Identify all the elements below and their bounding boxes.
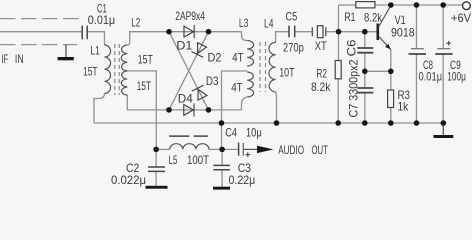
svg-text:XT: XT xyxy=(315,39,328,53)
junction audio node B (L5 right / C3 / C4) xyxy=(219,147,225,153)
wire coax shield dashed bottom xyxy=(0,44,77,46)
wire L4 top lead to C5 xyxy=(276,32,289,43)
wire supply rail R1 right to +6V terminal xyxy=(375,4,463,6)
junction ring node B top-right xyxy=(206,29,212,35)
wire R2 bottom to ground rail xyxy=(337,79,339,123)
inductor L3 lower winding 4T xyxy=(247,72,253,97)
wire C2 bottom to its ground xyxy=(155,172,157,186)
svg-text:15T: 15T xyxy=(83,65,98,79)
wire L3 bottom lead xyxy=(242,97,248,110)
inductor L2 upper winding 15T xyxy=(121,45,127,71)
capacitor C8 0.01u xyxy=(409,49,426,54)
C9 plus polarity mark xyxy=(446,41,451,46)
resistor R3 1k xyxy=(388,90,394,108)
wire node A to L5 left xyxy=(156,148,169,150)
wire supply rail R1 left lead xyxy=(339,4,356,6)
capacitor C2 0.022u xyxy=(148,167,165,171)
svg-text:2AP9x4: 2AP9x4 xyxy=(175,9,205,23)
svg-text:0.22μ: 0.22μ xyxy=(229,173,256,187)
wire C5 to XT xyxy=(295,31,313,33)
diode D1 xyxy=(184,25,194,38)
ground main rail right xyxy=(434,135,454,138)
inductor L1 winding 15T xyxy=(105,45,111,94)
transistor V1 emitter lead with arrow xyxy=(379,37,391,50)
svg-text:15T: 15T xyxy=(138,52,153,66)
svg-text:L2: L2 xyxy=(131,16,140,30)
svg-text:D3: D3 xyxy=(206,74,219,88)
junction ring node D bottom-right xyxy=(206,107,212,113)
wire coax shield dashed top xyxy=(0,18,79,20)
diode D4 xyxy=(184,103,194,116)
inductor L5 core dashes xyxy=(169,135,208,137)
svg-text:D2: D2 xyxy=(208,51,222,65)
capacitor C5 270p xyxy=(289,26,295,38)
wire node X to base node to V1 base xyxy=(339,31,378,33)
svg-text:C5: C5 xyxy=(286,9,298,23)
junction ring node A top-left xyxy=(166,29,172,35)
capacitor C6 3300p xyxy=(357,48,373,53)
svg-text:100μ: 100μ xyxy=(447,69,466,83)
svg-text:R2: R2 xyxy=(316,66,327,80)
junction C9 bottom at ground rail xyxy=(441,120,447,126)
svg-text:D1: D1 xyxy=(176,38,192,52)
wire ring diagonal node B-top to node C-bottom xyxy=(169,32,209,110)
capacitor C7 3300p xyxy=(357,88,373,93)
wire C8 bottom to ground rail xyxy=(416,55,418,124)
svg-text:L3: L3 xyxy=(239,16,249,30)
svg-text:4T: 4T xyxy=(232,51,244,65)
svg-text:+6V: +6V xyxy=(451,11,471,25)
diode D2 xyxy=(191,43,206,58)
junction C7 bottom at ground rail xyxy=(362,120,368,126)
wire emitter down to R3 top xyxy=(390,50,392,91)
wire C1 to L1 top xyxy=(87,32,104,45)
svg-text:9018: 9018 xyxy=(391,26,415,40)
wire L3 center tap down to audio node B xyxy=(222,71,248,149)
capacitor C9 100u electrolytic xyxy=(435,49,452,54)
junction emitter / C6-C7 node xyxy=(362,69,368,75)
junction audio node A (L5 left / C2) xyxy=(153,147,159,153)
transformer T2 core (L3/L4) xyxy=(260,42,266,92)
svg-text:C4: C4 xyxy=(225,126,237,140)
junction base node (C6 top) xyxy=(362,29,368,35)
ground C3 xyxy=(213,187,230,190)
inductor L2 lower winding 15T xyxy=(121,71,127,95)
svg-text:10μ: 10μ xyxy=(246,126,262,140)
svg-text:8.2k: 8.2k xyxy=(311,80,331,94)
terminal +6V xyxy=(463,2,471,10)
capacitor C1 0.01u xyxy=(82,26,87,40)
svg-text:L5: L5 xyxy=(169,153,178,167)
junction L3 tap at ground rail xyxy=(219,120,225,126)
svg-text:IF: IF xyxy=(1,52,8,66)
svg-text:100T: 100T xyxy=(187,153,210,167)
wire R3 bottom to ground rail xyxy=(390,108,392,124)
wire ring diagonal node A-top to node D-bottom xyxy=(169,32,209,110)
wire C3 bottom to its ground xyxy=(221,170,223,186)
audio out arrow xyxy=(243,146,273,153)
svg-text:8.2k: 8.2k xyxy=(364,11,383,25)
wire C6 bottom to emitter junction to C7 top xyxy=(364,54,366,88)
wire L4 bottom lead to ground rail xyxy=(275,92,278,123)
junction collector at supply rail xyxy=(388,2,394,8)
svg-text:4T: 4T xyxy=(231,81,243,95)
junction C8 top at supply rail xyxy=(414,2,420,8)
wire C7 bottom to ground rail xyxy=(364,94,366,124)
inductor L5 winding 100T xyxy=(170,144,209,150)
wire coax shield ground stub xyxy=(65,45,67,57)
wire L2 top lead and ring top rail xyxy=(127,32,241,45)
wire C9 bottom to ground rail xyxy=(442,55,444,124)
wire node X vertical (R1 left to XT to R2 top) xyxy=(338,5,340,61)
wire L2 bottom lead and ring bottom rail xyxy=(127,95,241,110)
svg-text:IN: IN xyxy=(15,52,24,66)
inductor L4 winding 10T xyxy=(269,42,276,92)
svg-text:270p: 270p xyxy=(283,41,304,55)
svg-text:0.01μ: 0.01μ xyxy=(419,69,443,83)
ground coax shield xyxy=(58,57,74,60)
crystal XT xyxy=(312,26,326,38)
capacitor C3 0.22u xyxy=(214,165,230,169)
junction R3 bottom at ground rail xyxy=(388,120,394,126)
transistor V1 collector lead xyxy=(379,6,391,27)
wire ground-symbol stub right end of rail xyxy=(442,123,444,135)
wire L2 center tap to node A xyxy=(127,71,156,149)
svg-text:L1: L1 xyxy=(90,44,100,58)
junction ring node C bottom-left xyxy=(166,107,172,113)
wire C8 top lead xyxy=(416,5,418,48)
junction C8 bottom at ground rail xyxy=(414,120,420,126)
wire C2 top lead xyxy=(155,149,157,166)
svg-text:AUDIO: AUDIO xyxy=(278,143,304,157)
transistor V1 9018 base bar xyxy=(376,24,379,41)
wire C9 top lead xyxy=(442,5,444,48)
ground C2 xyxy=(146,186,168,189)
svg-text:OUT: OUT xyxy=(312,143,329,157)
junction L4 bottom at ground rail xyxy=(274,120,280,126)
junction C9 top at supply rail xyxy=(440,2,446,8)
wire coax center conductor (IF IN to C1) xyxy=(0,31,82,33)
wire ground rail xyxy=(94,122,443,124)
wire base node down to C6 xyxy=(364,32,366,47)
resistor R1 8.2k xyxy=(356,2,375,8)
capacitor C4 10u electrolytic xyxy=(239,143,244,156)
svg-text:L4: L4 xyxy=(264,16,274,30)
wire C3 top lead xyxy=(221,149,223,164)
junction R2 bottom at ground rail xyxy=(335,120,341,126)
wire L1 bottom to ground rail xyxy=(94,94,105,124)
svg-text:1k: 1k xyxy=(398,100,410,114)
resistor R2 8.2k xyxy=(335,61,341,79)
svg-text:C7 3300px2: C7 3300px2 xyxy=(346,59,360,117)
wire L3 top lead xyxy=(242,32,248,41)
svg-text:15T: 15T xyxy=(137,79,152,93)
C4 plus polarity mark xyxy=(245,152,250,157)
inductor L3 upper winding 4T xyxy=(247,41,253,67)
wire XT to node X xyxy=(326,31,339,33)
svg-text:C6: C6 xyxy=(344,39,358,56)
wire emitter junction horizontal xyxy=(365,70,391,72)
transformer T1 core (L1/L2) xyxy=(115,44,119,95)
svg-text:R1: R1 xyxy=(344,10,355,24)
wire L5 right to node B to C4 xyxy=(209,148,239,150)
diode D3 xyxy=(192,85,207,100)
svg-text:D4: D4 xyxy=(178,92,193,106)
junction node X (XT / R1 / R2 / base wire) xyxy=(336,29,342,35)
svg-text:0.01μ: 0.01μ xyxy=(88,13,115,27)
svg-text:0.022μ: 0.022μ xyxy=(111,173,146,187)
junction emitter / R3 node xyxy=(388,69,394,75)
svg-text:10T: 10T xyxy=(279,66,295,80)
